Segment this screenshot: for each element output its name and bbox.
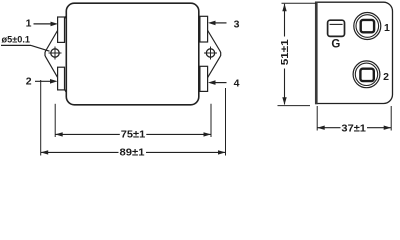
- svg-text:89±1: 89±1: [120, 146, 145, 158]
- label 1 with leader: [26, 17, 58, 29]
- dimension 51±1 (height, vertical): [278, 3, 317, 105]
- pin 2 (terminal, bottom-left): [58, 67, 65, 90]
- svg-text:G: G: [331, 39, 340, 51]
- right mounting hole: [204, 47, 217, 60]
- ground terminal G (tab cross-section): [328, 20, 345, 36]
- label 3 with leader: [208, 19, 240, 31]
- left mounting hole Ø5: [49, 47, 62, 60]
- svg-text:4: 4: [234, 77, 240, 89]
- terminal 2 (side view receptacle): [353, 61, 380, 88]
- side panel outline: [316, 2, 393, 103]
- svg-text:1: 1: [384, 22, 390, 34]
- svg-text:1: 1: [26, 17, 32, 29]
- side panel left flange edge (thick): [315, 2, 318, 105]
- left mounting tab (triangular flange): [45, 16, 66, 92]
- svg-text:2: 2: [26, 76, 32, 88]
- dimension 75±1 (hole spacing): [55, 104, 211, 141]
- right mounting tab (triangular flange): [199, 16, 221, 92]
- hole diameter label Ø5±0.1 with underline and leader: [1, 35, 50, 52]
- pin 3 (terminal, top-right): [200, 16, 208, 42]
- pin 4 (terminal, bottom-right): [200, 66, 208, 91]
- label 2 with leader: [26, 76, 58, 88]
- terminal 1 (side view receptacle): [354, 13, 381, 40]
- filter body (front view case): [66, 3, 199, 105]
- svg-text:2: 2: [383, 71, 389, 83]
- svg-text:75±1: 75±1: [121, 128, 146, 140]
- dimension 89±1 (overall width): [41, 80, 226, 158]
- pin 1 (terminal, top-left): [58, 17, 65, 42]
- dimension 37±1 (depth): [317, 106, 391, 134]
- svg-text:51±1: 51±1: [279, 39, 291, 65]
- svg-text:37±1: 37±1: [341, 122, 366, 134]
- svg-text:3: 3: [234, 19, 240, 31]
- svg-text:ø5±0.1: ø5±0.1: [2, 35, 31, 46]
- label 4 with leader: [208, 77, 240, 89]
